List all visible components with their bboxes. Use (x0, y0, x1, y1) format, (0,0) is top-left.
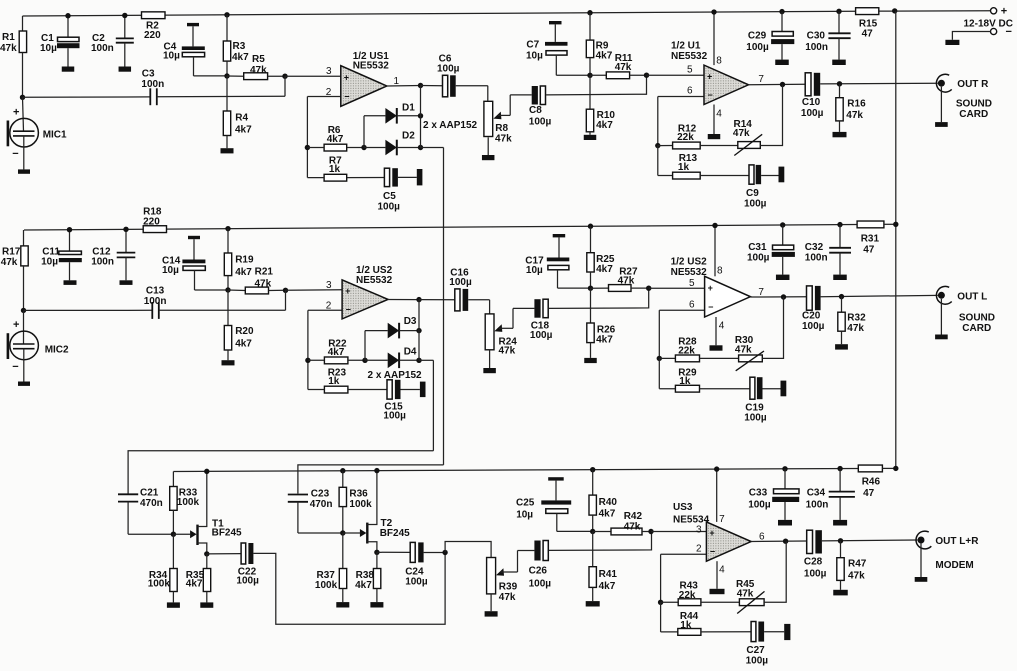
wire C14 bottom to node (195, 289, 229, 291)
resistor R35 (186, 554, 211, 603)
svg-text:100µ: 100µ (748, 500, 771, 511)
svg-text:R36: R36 (349, 488, 368, 499)
svg-text:−: − (708, 302, 713, 312)
power rail 1 (top, +V after R15) (23, 11, 856, 16)
capacitor C16 (419, 268, 472, 311)
resistor R40 (589, 470, 617, 532)
svg-text:MIC2: MIC2 (45, 344, 69, 355)
node R9 top on rail (587, 10, 592, 15)
svg-text:R17: R17 (2, 247, 21, 258)
node R40/R41/C25/R42 junction (590, 529, 595, 534)
wire D1 cathode to node (397, 113, 423, 118)
svg-text:22k: 22k (679, 590, 696, 601)
ground - terminal (945, 40, 959, 45)
node C1 top (65, 13, 70, 18)
svg-text:R8: R8 (495, 123, 508, 134)
node R25/R26/C17/R27 junction (588, 286, 593, 291)
capacitor C34 (806, 469, 855, 520)
ground C1 (62, 67, 75, 72)
wire C23 to T2 gate (298, 532, 343, 534)
svg-text:470n: 470n (140, 498, 163, 509)
wire output to diodes vertical (420, 86, 422, 148)
node R9/R10/C7/R11 junction (587, 73, 592, 78)
terminal bar C27 (784, 624, 790, 640)
svg-text:100µ: 100µ (236, 576, 259, 587)
ground MIC1 (18, 136, 30, 174)
capacitor C30 (805, 11, 850, 59)
resistor R12 (658, 124, 700, 149)
svg-text:100µ: 100µ (746, 42, 769, 53)
svg-text:22k: 22k (677, 132, 694, 143)
svg-text:C21: C21 (140, 488, 159, 499)
capacitor C24 (377, 542, 428, 587)
svg-text:47k: 47k (735, 345, 752, 356)
svg-text:R5: R5 (252, 54, 265, 65)
ground R35 (200, 602, 213, 607)
ground R26 (584, 358, 597, 363)
svg-text:2 x AAP152: 2 x AAP152 (423, 120, 478, 131)
node R16 top (837, 81, 842, 86)
node pin7 on rail3 (714, 466, 719, 471)
wire R14 to output node (760, 85, 782, 146)
resistor R5 (227, 54, 285, 80)
svg-text:C7: C7 (526, 40, 539, 51)
wire MIC2 line right segment (159, 309, 286, 311)
svg-text:R42: R42 (624, 511, 643, 522)
wire R8 wiper to C8 (510, 95, 532, 116)
resistor R41 (589, 532, 617, 602)
microphone MIC1 (7, 97, 67, 160)
svg-text:−: − (346, 304, 351, 314)
ground C11 (64, 280, 77, 285)
node C32 on rail2 (837, 222, 842, 227)
capacitor C33 (748, 469, 799, 520)
svg-text:1/2 U1: 1/2 U1 (671, 41, 701, 52)
svg-text:47k: 47k (255, 278, 272, 289)
svg-text:47k: 47k (848, 571, 865, 582)
wire node down to input line (285, 290, 287, 310)
capacitor C6 (421, 54, 460, 97)
trimmer R14 (700, 119, 762, 156)
svg-text:100µ: 100µ (802, 321, 825, 332)
wire C20 to OUT L (821, 295, 938, 296)
resistor R43 (661, 581, 701, 606)
wire R39 wiper to C26 (518, 551, 535, 573)
power rail 2 (24, 225, 857, 231)
svg-text:8: 8 (717, 265, 723, 276)
svg-text:10µ: 10µ (41, 256, 58, 267)
capacitor C19 (700, 377, 781, 423)
svg-text:100µ: 100µ (744, 199, 767, 210)
svg-text:+: + (344, 72, 349, 82)
capacitor C3 (in line) (141, 69, 164, 106)
svg-text:R21: R21 (255, 267, 274, 278)
svg-text:100µ: 100µ (530, 330, 553, 341)
svg-text:4k7: 4k7 (328, 347, 345, 358)
svg-text:C10: C10 (802, 97, 821, 108)
svg-text:MIC1: MIC1 (43, 130, 67, 141)
resistor R42 (593, 511, 651, 535)
resistor R34 (148, 534, 178, 602)
wire pin 6 of US2b (659, 300, 704, 311)
resistor R31 (in rail) (857, 221, 884, 255)
resistor R37 (315, 533, 347, 602)
svg-text:1k: 1k (329, 164, 341, 175)
node R47 top (838, 538, 843, 543)
ground R38 (370, 602, 383, 607)
wire C4 bottom to node (194, 75, 228, 77)
capacitor C13 (in line) (144, 286, 167, 319)
svg-text:1: 1 (394, 76, 400, 87)
resistor R20 (224, 290, 254, 360)
svg-text:100µ: 100µ (405, 577, 428, 588)
svg-text:4k7: 4k7 (596, 264, 613, 275)
trimmer R30 (700, 335, 765, 371)
node R32 top (839, 294, 844, 299)
svg-text:2: 2 (326, 301, 332, 312)
wire MIC1 line right segment (157, 95, 285, 97)
node R19 top on rail (225, 226, 230, 231)
transistor T2 BF245 (343, 471, 410, 553)
node R6/R7 left junction (305, 145, 310, 150)
node R5/pin3 junction (282, 74, 287, 79)
ground R47 (833, 590, 848, 596)
node C29 on rail (779, 9, 784, 14)
wire C21 to T1 gate (128, 533, 173, 535)
output jack OUT L+R (915, 531, 980, 582)
svg-text:−: − (12, 148, 18, 160)
svg-text:1k: 1k (680, 620, 692, 631)
svg-text:100µ: 100µ (747, 253, 770, 264)
svg-text:4k7: 4k7 (596, 120, 613, 131)
svg-text:6: 6 (687, 86, 693, 97)
svg-text:100n: 100n (141, 79, 164, 90)
node R1/MIC1/C3 junction (20, 95, 25, 100)
svg-text:C9: C9 (746, 188, 759, 199)
terminal bar C19 (781, 381, 787, 397)
svg-text:100n: 100n (806, 500, 829, 511)
svg-text:R39: R39 (499, 582, 518, 593)
wire R45 to output node (764, 541, 786, 602)
svg-text:4k7: 4k7 (599, 581, 616, 592)
svg-text:1k: 1k (679, 376, 691, 387)
wire R39 bottom to ground (490, 594, 492, 611)
potentiometer R39 (487, 558, 518, 604)
wire pin6 vertical to feedback (657, 97, 659, 146)
resistor R38 (355, 552, 381, 602)
svg-text:R31: R31 (861, 234, 880, 245)
svg-text:C29: C29 (748, 31, 767, 42)
svg-text:100µ: 100µ (744, 413, 767, 424)
node T1 gate (171, 532, 176, 537)
resistor R27 (591, 267, 649, 292)
svg-text:C27: C27 (746, 645, 765, 656)
op-amp US1 pin 2 wire (307, 87, 340, 98)
capacitor C25 (516, 477, 593, 531)
ground R34 (167, 602, 180, 607)
svg-text:47k: 47k (846, 110, 863, 121)
capacitor C29 (746, 12, 794, 60)
op-amp U S2a (1/2 US2 NE5532) (342, 265, 392, 319)
wire MIC2 line left segment (24, 309, 153, 311)
resistor R46 (in rail) (858, 465, 882, 499)
wire node to D2 (364, 147, 385, 149)
node C11 top (67, 227, 72, 232)
node R17/MIC2/C13 junction (21, 308, 26, 313)
capacitor C7 (526, 21, 590, 75)
pin 4 wire of U1 (714, 105, 722, 135)
svg-text:100k: 100k (177, 497, 200, 508)
svg-text:D2: D2 (402, 131, 415, 142)
node C34 on rail3 (837, 466, 842, 471)
svg-text:7: 7 (758, 74, 764, 85)
svg-text:C13: C13 (146, 286, 165, 297)
svg-text:R20: R20 (235, 326, 254, 337)
node sum C22/C24 (442, 550, 447, 555)
svg-text:4k7: 4k7 (232, 52, 249, 63)
node R42/C26 to pin 3 (648, 529, 653, 534)
svg-text:+: + (709, 528, 714, 538)
svg-text:47k: 47k (499, 592, 516, 603)
node R22/D3/D4 junction (362, 358, 367, 363)
ground R37 (336, 602, 349, 607)
wire R24 bottom to ground (489, 350, 491, 368)
svg-text:47k: 47k (0, 43, 17, 54)
svg-text:100n: 100n (91, 256, 114, 267)
svg-text:C28: C28 (804, 557, 823, 568)
svg-text:C25: C25 (516, 498, 535, 509)
capacitor C21 (118, 488, 163, 535)
svg-text:NE5532: NE5532 (353, 61, 390, 72)
svg-text:10µ: 10µ (526, 265, 543, 276)
resistor R26 (587, 288, 616, 358)
node output US1a (418, 83, 423, 88)
node R27/C18 to pin 5 (ch2) (646, 286, 651, 291)
wire node down to input line (284, 76, 286, 96)
svg-text:−: − (344, 91, 349, 101)
svg-text:100µ: 100µ (449, 277, 472, 288)
svg-text:4k7: 4k7 (355, 580, 372, 591)
ground C2 (119, 67, 132, 72)
svg-text:R40: R40 (599, 497, 618, 508)
output wire U1 pin 7 (749, 74, 806, 85)
svg-text:NE5532: NE5532 (671, 51, 708, 62)
svg-text:NE5534: NE5534 (673, 515, 710, 526)
svg-text:SOUND: SOUND (959, 313, 995, 324)
pin 7 wire of US3 (717, 469, 725, 525)
capacitor C2 (91, 15, 134, 66)
wire channel-2 drop vertical (432, 360, 434, 451)
svg-text:3: 3 (326, 280, 332, 291)
ground pin 4 U1 (708, 134, 721, 139)
node C2 top (122, 13, 127, 18)
node C12 top (123, 227, 128, 232)
capacitor C18 (530, 299, 553, 341)
ground pin 4 US3 (710, 589, 725, 594)
svg-text:CARD: CARD (959, 109, 988, 120)
potentiometer R24 (485, 314, 517, 357)
svg-text:4k7: 4k7 (235, 267, 252, 278)
svg-text:10µ: 10µ (516, 510, 533, 521)
wire pin 6 of U1 (658, 86, 704, 97)
node feedback/output US3 (783, 539, 788, 544)
resistor R33 (170, 472, 200, 535)
svg-text:R19: R19 (235, 255, 254, 266)
svg-text:47: 47 (863, 488, 875, 499)
resistor R47 (837, 541, 867, 590)
ground R4 (221, 148, 234, 153)
op-amp U S1 (1/2 US1 NE5532) (341, 51, 389, 106)
ground C33 (778, 520, 792, 526)
node C30 on rail (836, 9, 841, 14)
svg-text:R47: R47 (848, 559, 867, 570)
wire channel-1 drop vertical (443, 148, 445, 465)
svg-text:US3: US3 (673, 502, 693, 513)
svg-text:4k7: 4k7 (596, 335, 613, 346)
node T1 drain on rail3 (204, 469, 209, 474)
svg-text:100µ: 100µ (383, 411, 406, 422)
svg-text:4k7: 4k7 (599, 509, 616, 520)
capacitor C12 (91, 229, 135, 280)
node T2 gate (340, 530, 345, 535)
wire pin2 vertical to feedback (mixer) (660, 554, 662, 602)
resistor R22 (308, 339, 365, 364)
svg-text:4: 4 (716, 109, 722, 120)
svg-text:R4: R4 (235, 113, 248, 124)
wire MIC1 line left segment (23, 96, 151, 98)
wire C22 detour to sum node (253, 553, 445, 625)
svg-text:+: + (345, 286, 350, 296)
svg-text:1k: 1k (328, 376, 340, 387)
output wire US2a (388, 299, 419, 301)
pin 4 wire of US2b (716, 317, 725, 345)
svg-text:470n: 470n (310, 499, 333, 510)
wire D2 node to channel drop (421, 147, 444, 149)
resistor R7 (307, 156, 384, 182)
capacitor C4 (163, 23, 205, 76)
ground C32 (833, 275, 847, 280)
svg-text:R41: R41 (599, 569, 618, 580)
wire C8 to pin5 node (546, 75, 646, 95)
svg-text:C30: C30 (807, 31, 826, 42)
capacitor C17 (525, 234, 590, 288)
svg-text:10µ: 10µ (40, 43, 57, 54)
node R21/pin3 junction (283, 288, 288, 293)
resistor R9 (586, 13, 612, 76)
wire pin2 feedback vertical (306, 97, 308, 178)
svg-text:−: − (1006, 26, 1012, 38)
node pin8 on rail (711, 9, 716, 14)
resistor R36 (339, 471, 372, 533)
resistor R28 (659, 337, 699, 362)
svg-text:100n: 100n (144, 296, 167, 307)
svg-text:100k: 100k (315, 580, 338, 591)
ground R10 (584, 135, 597, 140)
label 2 x AAP152 (ch1) (423, 120, 478, 131)
wire node to U1 pin 5 (647, 65, 705, 76)
resistor R6 (307, 125, 364, 151)
svg-text:R1: R1 (2, 32, 15, 43)
+ supply terminal (991, 6, 1008, 18)
ground C34 (833, 520, 847, 526)
svg-text:C5: C5 (383, 191, 396, 202)
wire C26 to pin3 node (549, 532, 652, 551)
svg-text:100n: 100n (91, 43, 114, 54)
capacitor C28 (804, 530, 827, 579)
svg-text:22k: 22k (678, 346, 695, 357)
resistor R1 (0, 16, 27, 97)
svg-text:47k: 47k (499, 346, 516, 357)
svg-text:+: + (707, 71, 712, 81)
capacitor C11 (41, 230, 82, 281)
svg-text:OUT R: OUT R (957, 79, 989, 90)
resistor R23 (308, 368, 387, 394)
capacitor C23 (288, 488, 333, 533)
svg-text:47k: 47k (847, 323, 864, 334)
wire R8 bottom to ground (487, 137, 489, 155)
trimmer R45 (701, 579, 765, 614)
capacitor C31 (747, 225, 795, 275)
ground MIC2 (18, 349, 30, 386)
potentiometer R8 (484, 101, 512, 144)
wire D4 cathode to node (399, 358, 422, 363)
ground C12 (120, 280, 133, 285)
svg-text:CARD: CARD (962, 323, 991, 334)
node R3/R4/R5/C4 junction (224, 73, 229, 78)
svg-text:R3: R3 (233, 41, 246, 52)
ground C29 (775, 60, 789, 65)
terminal bar C5 (417, 169, 423, 185)
op-amp U S2b (1/2 US2 NE5532) (671, 257, 751, 317)
resistor R18 (in rail) (143, 207, 166, 233)
node T1 source (204, 551, 209, 556)
svg-text:3: 3 (326, 66, 332, 77)
main supply vertical wire (895, 11, 897, 469)
svg-text:C31: C31 (748, 242, 767, 253)
svg-text:100µ: 100µ (529, 579, 552, 590)
svg-text:D3: D3 (404, 316, 417, 327)
svg-text:8: 8 (716, 56, 722, 67)
wire node to US3 pin 3 (651, 525, 706, 536)
resistor R15 (in rail) (856, 8, 879, 40)
svg-text:NE5532: NE5532 (356, 275, 393, 286)
wire node up to D3 (365, 331, 388, 361)
node T2 source (374, 550, 379, 555)
wire C10 to OUT R (820, 82, 938, 85)
capacitor C15 (383, 380, 420, 422)
ground C30 (832, 60, 846, 65)
svg-text:C8: C8 (529, 105, 542, 116)
svg-text:47: 47 (863, 245, 875, 256)
node feedback/output US2b (781, 294, 786, 299)
svg-text:7: 7 (758, 287, 764, 298)
node R31 to supply vertical (884, 222, 899, 227)
diode D2 (385, 131, 415, 156)
capacitor C1 (40, 16, 80, 67)
svg-text:MODEM: MODEM (935, 560, 973, 571)
svg-text:−: − (710, 547, 715, 557)
output jack OUT R (935, 74, 992, 127)
wire D3 cathode to node (399, 328, 422, 333)
node T2 drain on rail3 (374, 468, 379, 473)
svg-text:4k7: 4k7 (235, 125, 252, 136)
svg-text:100µ: 100µ (801, 108, 824, 119)
svg-text:10µ: 10µ (162, 265, 179, 276)
wire D4 node to channel drop (419, 359, 433, 361)
resistor R44 (661, 602, 701, 635)
svg-text:10µ: 10µ (526, 51, 543, 62)
svg-text:6: 6 (689, 300, 695, 311)
